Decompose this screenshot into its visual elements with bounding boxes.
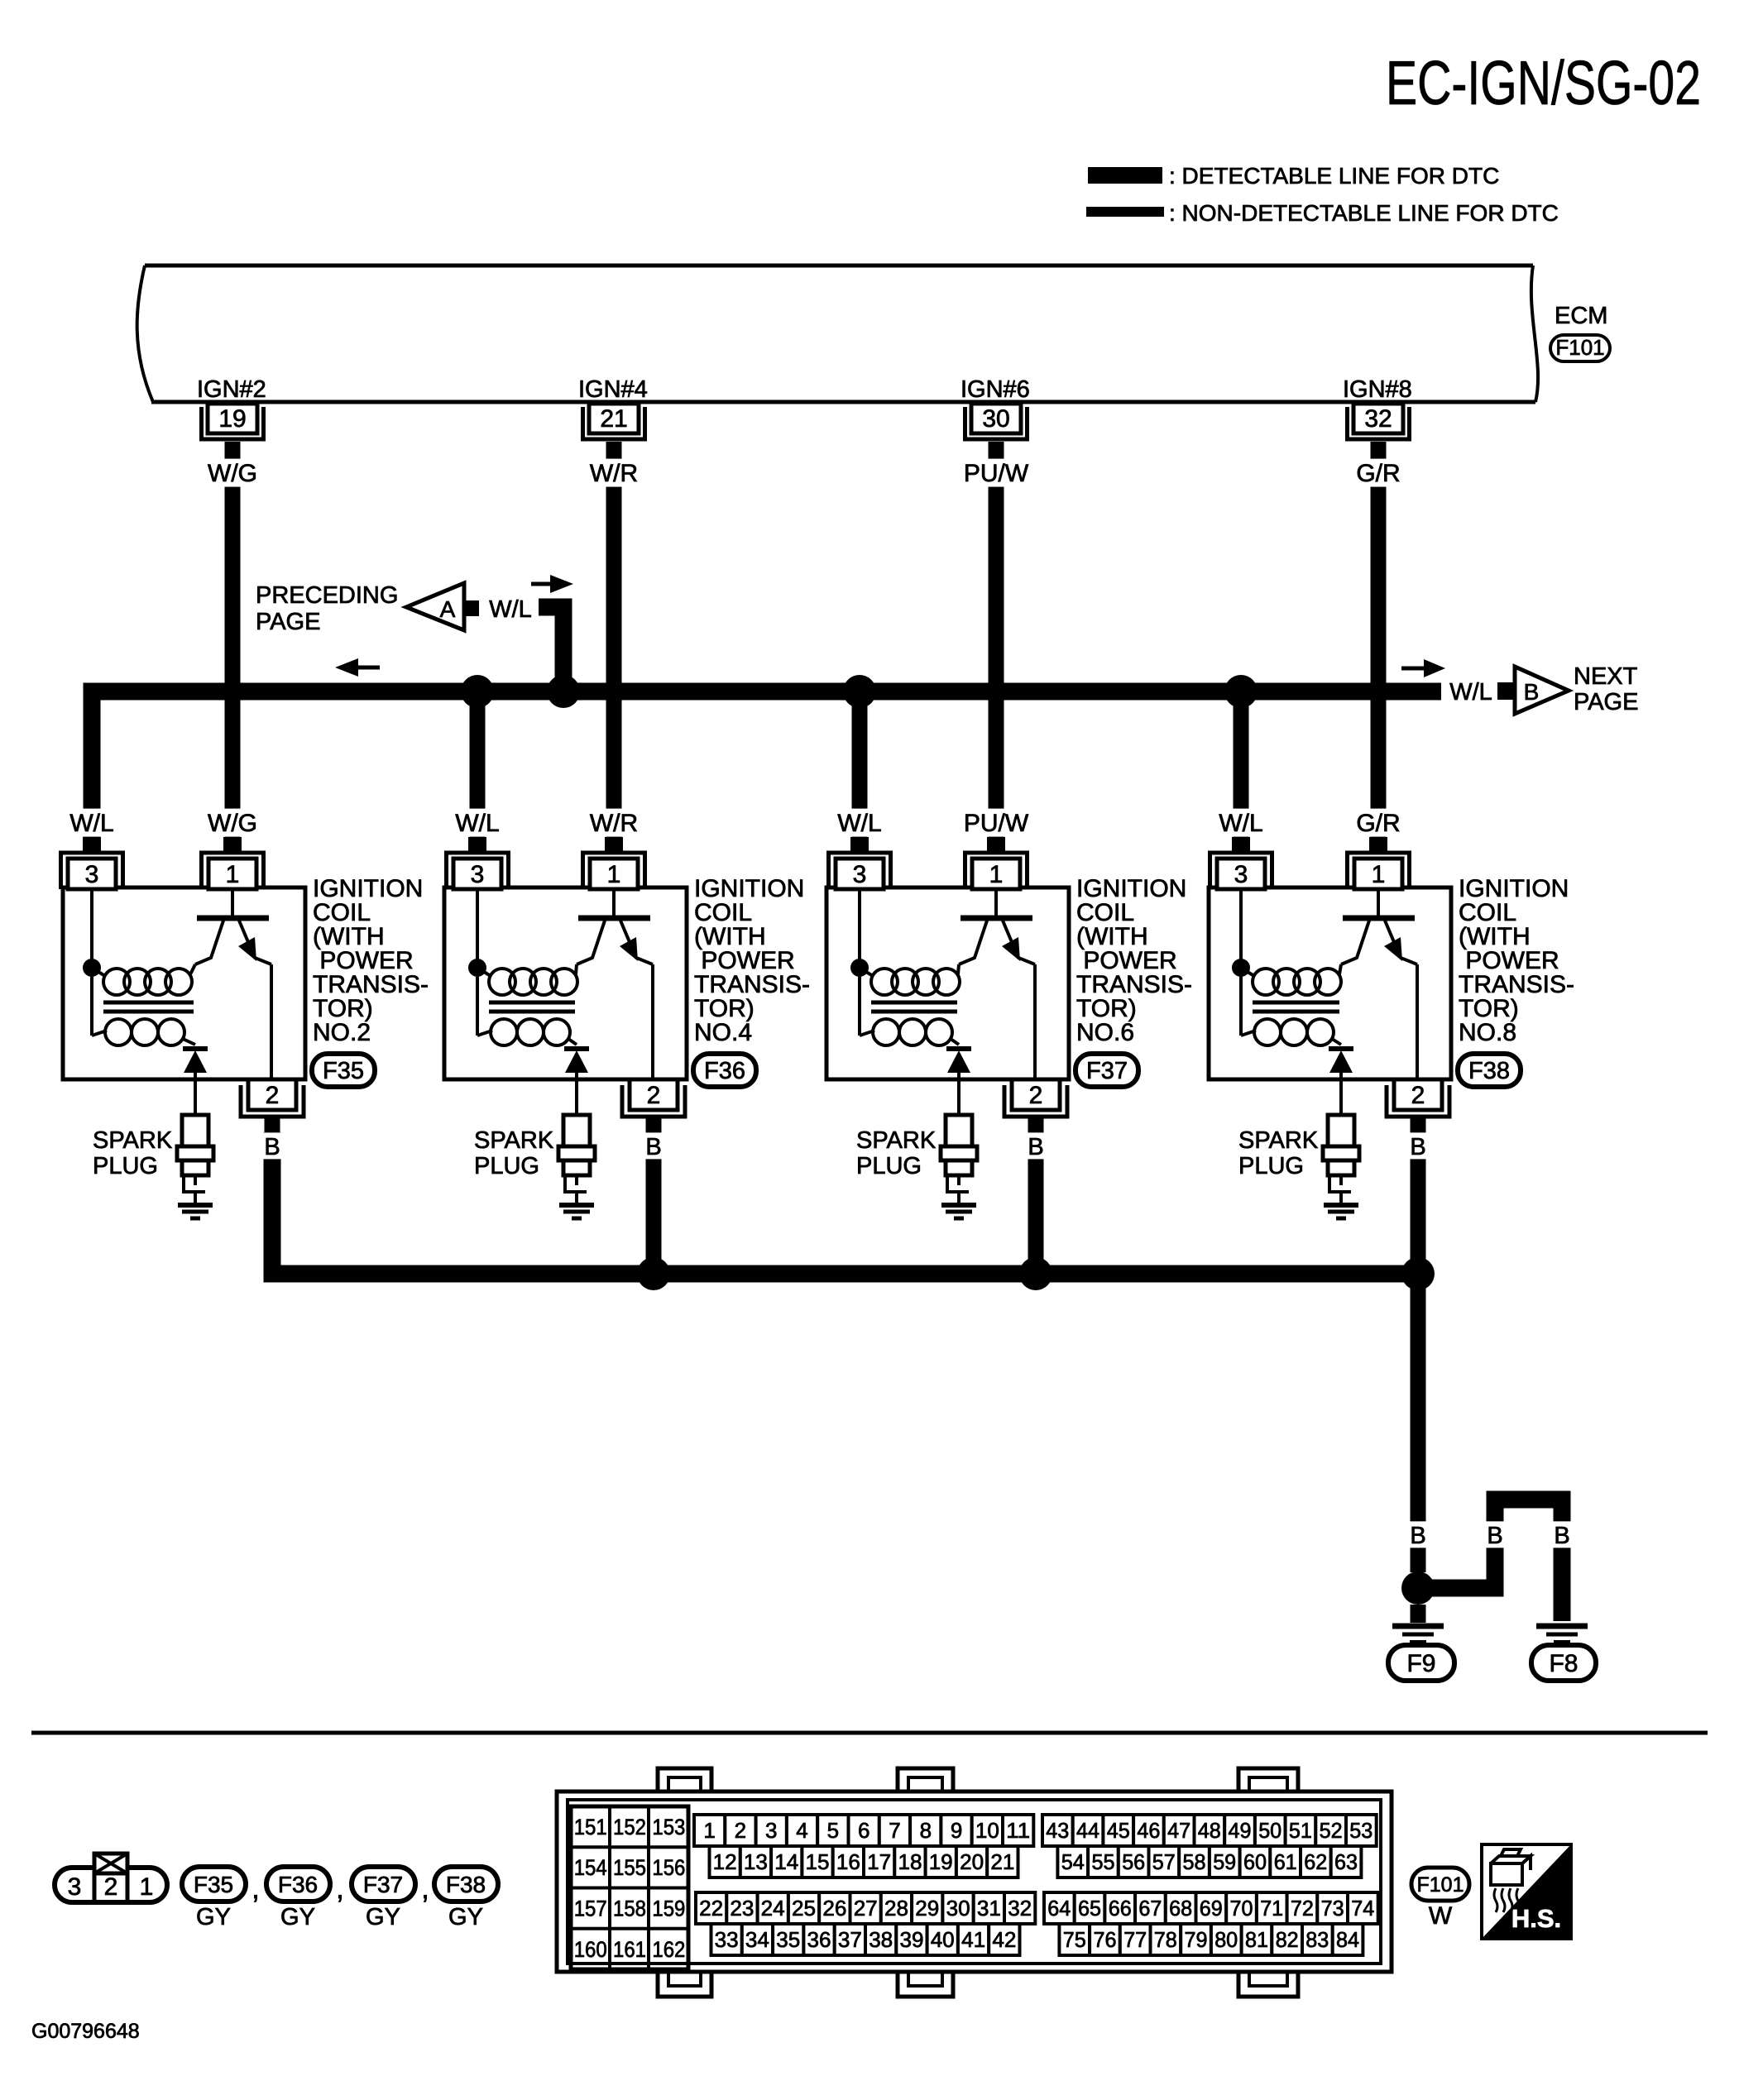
ignition coil NO.4 label	[694, 875, 810, 1046]
junction on bus at coil no.6 W/L drop	[843, 675, 876, 708]
power transistor in coil NO.4	[577, 889, 653, 1079]
junction on bus at coil no.8 W/L drop	[1224, 675, 1258, 708]
coil NO.4 secondary winding	[477, 968, 577, 1045]
wire label W/L (at coil NO.4 pin 3)	[451, 809, 505, 837]
svg-text:B: B	[1410, 1523, 1425, 1549]
svg-text:27: 27	[854, 1896, 878, 1921]
coil NO.8 primary winding	[1241, 964, 1341, 995]
arrow left on bus	[335, 658, 380, 677]
svg-text:1: 1	[989, 861, 1004, 888]
coil NO.4 pin 3	[447, 837, 509, 889]
svg-text:62: 62	[1304, 1849, 1327, 1874]
wire W/L from preceding page connector A to bus	[539, 607, 563, 691]
svg-text:19: 19	[929, 1849, 953, 1874]
wire label B (coil NO.2)	[260, 1132, 285, 1160]
power transistor in coil NO.6	[959, 889, 1035, 1079]
coil NO.6 secondary winding	[860, 968, 959, 1045]
svg-text:47: 47	[1167, 1818, 1190, 1843]
wire W/L drop to ignition coil NO.8 pin 3	[1234, 691, 1249, 837]
wire W/L drop to ignition coil NO.4 pin 3	[470, 691, 486, 837]
wire label W/R (top)	[587, 459, 641, 487]
svg-text:,: ,	[336, 1873, 343, 1905]
ground symbol F9	[1392, 1626, 1444, 1642]
wire B from coil NO.2 pin 2 to ground bus	[272, 1132, 1418, 1274]
svg-text:26: 26	[822, 1896, 846, 1921]
svg-text:1: 1	[226, 861, 240, 888]
svg-text:39: 39	[900, 1927, 924, 1952]
svg-text:W/R: W/R	[590, 460, 638, 487]
ECM connector pins 64-74	[1044, 1892, 1378, 1924]
legend: non-detectable line sample	[1086, 207, 1164, 217]
svg-text:1: 1	[1372, 861, 1386, 888]
svg-text:W: W	[1429, 1902, 1453, 1930]
svg-text:1: 1	[607, 861, 621, 888]
connector oval F38	[1458, 1054, 1521, 1087]
svg-text:W/L: W/L	[1219, 810, 1262, 837]
svg-text:45: 45	[1107, 1818, 1130, 1843]
svg-text:38: 38	[869, 1927, 893, 1952]
svg-text:PU/W: PU/W	[964, 460, 1029, 487]
svg-text:64: 64	[1047, 1896, 1071, 1921]
ECM connector pins 75-84	[1059, 1924, 1363, 1955]
ignition coil NO.2 box	[63, 887, 305, 1079]
svg-text:9: 9	[951, 1818, 962, 1843]
ECM connector pins 12-21	[710, 1846, 1018, 1878]
coil NO.2 internal junction	[83, 889, 101, 977]
svg-text:F36: F36	[278, 1872, 318, 1897]
svg-text:W/L: W/L	[1449, 679, 1492, 706]
keyway mark on connector face	[94, 1854, 127, 1873]
off-page connector B (next page)	[1515, 667, 1569, 714]
wire label W/G (top)	[206, 459, 260, 487]
svg-text:42: 42	[992, 1927, 1016, 1952]
svg-text:157: 157	[574, 1897, 607, 1921]
wire label B (coil NO.4)	[641, 1132, 666, 1160]
stub at connector B	[1497, 682, 1513, 700]
ECM connector pin grid 151-162	[571, 1806, 688, 1969]
ECM terminal label IGN#6	[961, 376, 1030, 403]
svg-text:50: 50	[1258, 1818, 1281, 1843]
svg-text:IGN#8: IGN#8	[1343, 376, 1412, 403]
connector oval F37 (bottom legend)	[352, 1867, 415, 1901]
svg-text:81: 81	[1245, 1927, 1268, 1952]
svg-text:23: 23	[730, 1896, 754, 1921]
svg-text:77: 77	[1123, 1927, 1147, 1952]
svg-text:PAGE: PAGE	[1574, 689, 1638, 715]
ECM label	[1555, 303, 1607, 329]
svg-text:43: 43	[1046, 1818, 1069, 1843]
svg-text:30: 30	[982, 405, 1009, 433]
svg-text:NO.2: NO.2	[313, 1019, 371, 1046]
svg-text:1: 1	[140, 1873, 154, 1901]
wire label W/L (at coil NO.6 pin 3)	[833, 809, 887, 837]
svg-text:W/L: W/L	[455, 810, 499, 837]
ECM pin 32 connector	[1348, 404, 1410, 457]
wire B from coil NO.6 pin 2 to ground bus	[1028, 1132, 1044, 1274]
svg-text:F9: F9	[1406, 1650, 1435, 1677]
wire label W/L at connector B	[1449, 679, 1492, 706]
svg-text:35: 35	[776, 1927, 800, 1952]
ECM connector pins 54-63	[1057, 1846, 1361, 1878]
svg-text:B: B	[264, 1134, 280, 1160]
svg-text:33: 33	[715, 1927, 739, 1952]
svg-text:82: 82	[1276, 1927, 1299, 1952]
wire label B (coil NO.8)	[1406, 1132, 1430, 1160]
ground connector oval F9	[1388, 1645, 1454, 1681]
svg-text:80: 80	[1214, 1927, 1238, 1952]
coil NO.6 core	[871, 1002, 957, 1012]
svg-text:2: 2	[647, 1082, 661, 1109]
svg-text:162: 162	[652, 1937, 685, 1962]
svg-text:3: 3	[765, 1818, 777, 1843]
svg-text:10: 10	[975, 1818, 999, 1843]
wire label B (right leg)	[1550, 1521, 1574, 1549]
svg-text:2: 2	[1029, 1082, 1043, 1109]
svg-text:58: 58	[1183, 1849, 1206, 1874]
label W under F101	[1429, 1902, 1453, 1930]
svg-text:151: 151	[574, 1815, 607, 1839]
document number G00796648	[31, 2020, 140, 2043]
svg-text:B: B	[1554, 1523, 1569, 1549]
svg-text:161: 161	[613, 1937, 646, 1962]
svg-text:53: 53	[1349, 1818, 1373, 1843]
svg-text:PAGE: PAGE	[256, 609, 320, 635]
svg-text:,: ,	[421, 1873, 429, 1905]
ignition coil NO.2 label	[313, 875, 429, 1046]
svg-text:153: 153	[652, 1815, 685, 1839]
svg-text:59: 59	[1213, 1849, 1236, 1874]
junction on ground bus at coil no.8	[1401, 1257, 1435, 1290]
legend: detectable line sample	[1088, 167, 1162, 184]
svg-text:83: 83	[1305, 1927, 1329, 1952]
wire G/R from ECM pin 32 to coil pin 1	[1371, 457, 1387, 837]
svg-text:32: 32	[1008, 1896, 1032, 1921]
svg-text:71: 71	[1260, 1896, 1283, 1921]
ignition coil NO.8 label	[1459, 875, 1574, 1046]
label GY under F37	[366, 1904, 400, 1930]
label SPARK PLUG (NO.2)	[93, 1127, 173, 1179]
svg-text:75: 75	[1063, 1927, 1086, 1952]
wire W/R from ECM pin 21 to coil pin 1	[606, 457, 622, 837]
svg-text:55: 55	[1092, 1849, 1115, 1874]
label GY under F35	[196, 1904, 231, 1930]
label SPARK PLUG (NO.8)	[1238, 1127, 1319, 1179]
coil NO.6 pin 2	[1004, 1079, 1067, 1132]
svg-text:41: 41	[961, 1927, 985, 1952]
ECM connector pins 1-11	[694, 1815, 1033, 1846]
svg-text:21: 21	[990, 1849, 1014, 1874]
svg-text:PLUG: PLUG	[93, 1153, 158, 1179]
svg-text:B: B	[645, 1134, 661, 1160]
svg-text:IGN#2: IGN#2	[197, 376, 266, 403]
ECM terminal label IGN#8	[1343, 376, 1412, 403]
svg-text:GY: GY	[448, 1904, 483, 1930]
comma	[421, 1873, 429, 1905]
wire label W/L at connector A	[489, 596, 532, 623]
wire label B (left leg)	[1483, 1521, 1507, 1549]
ECM pin 21 connector	[583, 404, 645, 457]
svg-text:11: 11	[1006, 1818, 1030, 1843]
svg-text:IGN#4: IGN#4	[578, 376, 648, 403]
svg-text:40: 40	[931, 1927, 955, 1952]
wire PU/W from ECM pin 30 to coil pin 1	[989, 457, 1004, 837]
coil NO.8 pin 3	[1210, 837, 1272, 889]
H.S. harness-side logo	[1482, 1844, 1571, 1939]
coil NO.4 primary winding	[477, 964, 577, 995]
wire label B above ground junction	[1406, 1521, 1430, 1549]
wire label W/G (at coil)	[206, 809, 260, 837]
svg-text:34: 34	[745, 1927, 769, 1952]
label NEXT PAGE	[1574, 663, 1638, 715]
off-page connector A (preceding page)	[406, 583, 464, 630]
svg-text:60: 60	[1243, 1849, 1267, 1874]
spark plug of coil NO.8	[1323, 1115, 1359, 1204]
connector oval F37	[1075, 1054, 1138, 1087]
coil NO.8 internal junction	[1232, 889, 1250, 977]
wire label PU/W (top)	[961, 459, 1031, 487]
svg-text:79: 79	[1185, 1927, 1208, 1952]
diode in coil NO.8	[1329, 1049, 1353, 1115]
junction on ground bus at coil no.4	[637, 1257, 670, 1290]
svg-text:W/G: W/G	[208, 460, 257, 487]
svg-text:68: 68	[1169, 1896, 1192, 1921]
coil NO.4 internal junction	[468, 889, 486, 977]
junction on bus at coil no.4 W/L drop	[461, 675, 494, 708]
ECM connector pins 43-53	[1042, 1815, 1377, 1846]
coil NO.8 pin 2	[1387, 1079, 1449, 1132]
ECM connector pins 33-42	[711, 1924, 1020, 1955]
svg-text:3: 3	[68, 1873, 82, 1901]
svg-text:22: 22	[699, 1896, 723, 1921]
coil NO.2 pin 2	[241, 1079, 304, 1132]
comma	[252, 1873, 259, 1905]
svg-text:F37: F37	[1086, 1058, 1128, 1084]
label GY under F36	[280, 1904, 315, 1930]
junction on ground bus at coil no.6	[1019, 1257, 1052, 1290]
svg-text:IGN#6: IGN#6	[961, 376, 1030, 403]
svg-text:12: 12	[713, 1849, 737, 1874]
svg-text:61: 61	[1274, 1849, 1297, 1874]
coil NO.2 secondary winding	[92, 968, 195, 1045]
svg-text:17: 17	[867, 1849, 891, 1874]
svg-text:G/R: G/R	[1356, 460, 1400, 487]
svg-text:51: 51	[1289, 1818, 1312, 1843]
svg-text:F35: F35	[194, 1872, 233, 1897]
svg-text:15: 15	[806, 1849, 830, 1874]
spark plug ground of coil NO.8	[1324, 1205, 1358, 1218]
svg-text:5: 5	[827, 1818, 839, 1843]
svg-text:24: 24	[761, 1896, 785, 1921]
svg-text:PLUG: PLUG	[1238, 1153, 1304, 1179]
label PRECEDING PAGE	[256, 582, 398, 635]
svg-text:SPARK: SPARK	[1238, 1127, 1319, 1154]
wire label B (coil NO.6)	[1023, 1132, 1048, 1160]
svg-text:69: 69	[1200, 1896, 1223, 1921]
svg-text:13: 13	[744, 1849, 768, 1874]
wire label G/R (top)	[1352, 459, 1406, 487]
ignition coil NO.6 label	[1076, 875, 1192, 1046]
coil NO.6 internal junction	[850, 889, 869, 977]
svg-text:52: 52	[1320, 1818, 1343, 1843]
coil NO.2 core	[103, 1002, 194, 1012]
svg-text:PLUG: PLUG	[856, 1153, 922, 1179]
svg-text:PU/W: PU/W	[964, 810, 1029, 837]
svg-text:F36: F36	[704, 1058, 745, 1084]
svg-text:44: 44	[1076, 1818, 1099, 1843]
svg-text:54: 54	[1061, 1849, 1085, 1874]
coil NO.6 primary winding	[860, 964, 960, 995]
ECM connector face outline	[557, 1768, 1392, 1997]
wire label G/R (at coil)	[1352, 809, 1406, 837]
coil NO.6 pin 3	[829, 837, 891, 889]
svg-text:76: 76	[1094, 1927, 1117, 1952]
svg-text:16: 16	[836, 1849, 860, 1874]
svg-text:63: 63	[1334, 1849, 1358, 1874]
svg-text:F37: F37	[363, 1872, 403, 1897]
stub at connector A	[464, 600, 479, 616]
svg-text:2: 2	[1411, 1082, 1425, 1109]
svg-text:F101: F101	[1417, 1873, 1464, 1897]
ECM pin 19 connector	[202, 404, 264, 457]
svg-text:G00796648: G00796648	[31, 2020, 140, 2043]
ECM pin 30 connector	[965, 404, 1028, 457]
ECM terminal label IGN#2	[197, 376, 266, 403]
separator line	[31, 1731, 1708, 1735]
power transistor in coil NO.2	[195, 889, 271, 1079]
svg-text:W/L: W/L	[489, 596, 532, 623]
ground connector oval F8	[1531, 1645, 1596, 1681]
power transistor in coil NO.8	[1341, 889, 1417, 1079]
svg-text:4: 4	[796, 1818, 807, 1843]
svg-text:155: 155	[613, 1855, 646, 1880]
svg-text:66: 66	[1109, 1896, 1132, 1921]
svg-text:36: 36	[807, 1927, 831, 1952]
legend text: NON-DETECTABLE LINE FOR DTC	[1169, 200, 1559, 226]
svg-text:W/L: W/L	[69, 810, 113, 837]
connector oval F35 (bottom legend)	[182, 1867, 246, 1901]
svg-text:70: 70	[1230, 1896, 1253, 1921]
svg-text:GY: GY	[280, 1904, 315, 1930]
svg-text:49: 49	[1229, 1818, 1252, 1843]
connector oval F38 (bottom legend)	[434, 1867, 498, 1901]
ignition coil NO.4 box	[444, 887, 687, 1079]
wire B from coil NO.8 pin 2 through bus to ground	[1411, 1132, 1426, 1572]
wire B jumper to second ground	[1418, 1500, 1562, 1621]
svg-text:3: 3	[471, 861, 485, 888]
wire W/L upper bus with left branch down to coil no.2 pin 3	[92, 691, 1441, 837]
svg-text:1: 1	[703, 1818, 715, 1843]
comma	[336, 1873, 343, 1905]
svg-text:2: 2	[266, 1082, 280, 1109]
svg-text:72: 72	[1291, 1896, 1314, 1921]
svg-text:19: 19	[218, 405, 246, 433]
svg-text:21: 21	[600, 405, 627, 433]
svg-text:154: 154	[574, 1855, 607, 1880]
svg-text:ECM: ECM	[1555, 303, 1607, 329]
coil NO.2 pin 1	[202, 837, 264, 889]
svg-text:46: 46	[1137, 1818, 1160, 1843]
svg-text:W/R: W/R	[590, 810, 638, 837]
svg-text:NO.4: NO.4	[694, 1019, 752, 1046]
coil NO.8 secondary winding	[1241, 968, 1341, 1045]
svg-text:152: 152	[613, 1815, 646, 1839]
svg-text:78: 78	[1154, 1927, 1177, 1952]
coil NO.6 pin 1	[965, 837, 1028, 889]
stub from junction to ground F9	[1411, 1605, 1426, 1623]
svg-text:F38: F38	[446, 1872, 486, 1897]
svg-text:73: 73	[1321, 1896, 1344, 1921]
svg-text:32: 32	[1364, 405, 1392, 433]
connector oval F101 (bottom)	[1411, 1868, 1469, 1901]
coil NO.4 core	[489, 1002, 575, 1012]
svg-text:31: 31	[977, 1896, 1001, 1921]
wire label W/L (at coil NO.2 pin 3)	[65, 809, 119, 837]
svg-text:PLUG: PLUG	[474, 1153, 539, 1179]
diode in coil NO.6	[946, 1049, 971, 1115]
svg-text:156: 156	[652, 1855, 685, 1880]
connector F101 oval (ECM)	[1550, 335, 1610, 361]
ignition coil NO.8 box	[1209, 887, 1451, 1079]
svg-text:,: ,	[252, 1873, 259, 1905]
svg-text:3: 3	[1234, 861, 1248, 888]
coil NO.4 pin 1	[583, 837, 645, 889]
ground symbol F8	[1536, 1626, 1588, 1642]
svg-text:NEXT: NEXT	[1574, 663, 1638, 690]
svg-text:67: 67	[1138, 1896, 1162, 1921]
label SPARK PLUG (NO.4)	[474, 1127, 554, 1179]
svg-text:84: 84	[1336, 1927, 1359, 1952]
svg-text:B: B	[1524, 679, 1540, 705]
ECM terminal label IGN#4	[578, 376, 648, 403]
junction on bus at preceding-page riser	[547, 675, 580, 708]
coil NO.8 core	[1253, 1002, 1339, 1012]
coil NO.2 primary winding	[92, 964, 195, 995]
svg-text:3: 3	[853, 861, 867, 888]
svg-text:G/R: G/R	[1356, 810, 1400, 837]
ignition coil NO.6 box	[826, 887, 1069, 1079]
arrow right toward next page	[1401, 659, 1445, 677]
diode in coil NO.2	[183, 1049, 208, 1115]
svg-text:159: 159	[652, 1897, 685, 1921]
ECM box	[137, 265, 1538, 402]
svg-text:18: 18	[898, 1849, 922, 1874]
spark plug of coil NO.2	[177, 1115, 213, 1204]
coil connector face 3-2-1	[55, 1868, 167, 1902]
label GY under F38	[448, 1904, 483, 1930]
svg-text:EC-IGN/SG-02: EC-IGN/SG-02	[1386, 48, 1701, 117]
svg-text:: DETECTABLE LINE FOR DTC: : DETECTABLE LINE FOR DTC	[1169, 163, 1499, 189]
svg-text:B: B	[1028, 1134, 1043, 1160]
svg-text:A: A	[440, 596, 456, 622]
svg-text:160: 160	[574, 1937, 607, 1962]
svg-text:GY: GY	[366, 1904, 400, 1930]
coil NO.2 pin 3	[61, 837, 123, 889]
legend text: DETECTABLE LINE FOR DTC	[1169, 163, 1499, 189]
connector oval F36 (bottom legend)	[266, 1867, 330, 1901]
svg-text:2: 2	[104, 1873, 118, 1901]
svg-text:SPARK: SPARK	[474, 1127, 554, 1154]
svg-text:W/G: W/G	[208, 810, 257, 837]
svg-text:: NON-DETECTABLE LINE FOR DTC: : NON-DETECTABLE LINE FOR DTC	[1169, 200, 1559, 226]
connector oval F35	[312, 1054, 375, 1087]
svg-text:PRECEDING: PRECEDING	[256, 582, 398, 609]
arrow right above preceding page riser	[531, 575, 573, 593]
svg-text:B: B	[1410, 1134, 1425, 1160]
svg-text:30: 30	[946, 1896, 970, 1921]
svg-text:NO.8: NO.8	[1459, 1019, 1516, 1046]
svg-text:74: 74	[1351, 1896, 1374, 1921]
svg-text:28: 28	[884, 1896, 908, 1921]
